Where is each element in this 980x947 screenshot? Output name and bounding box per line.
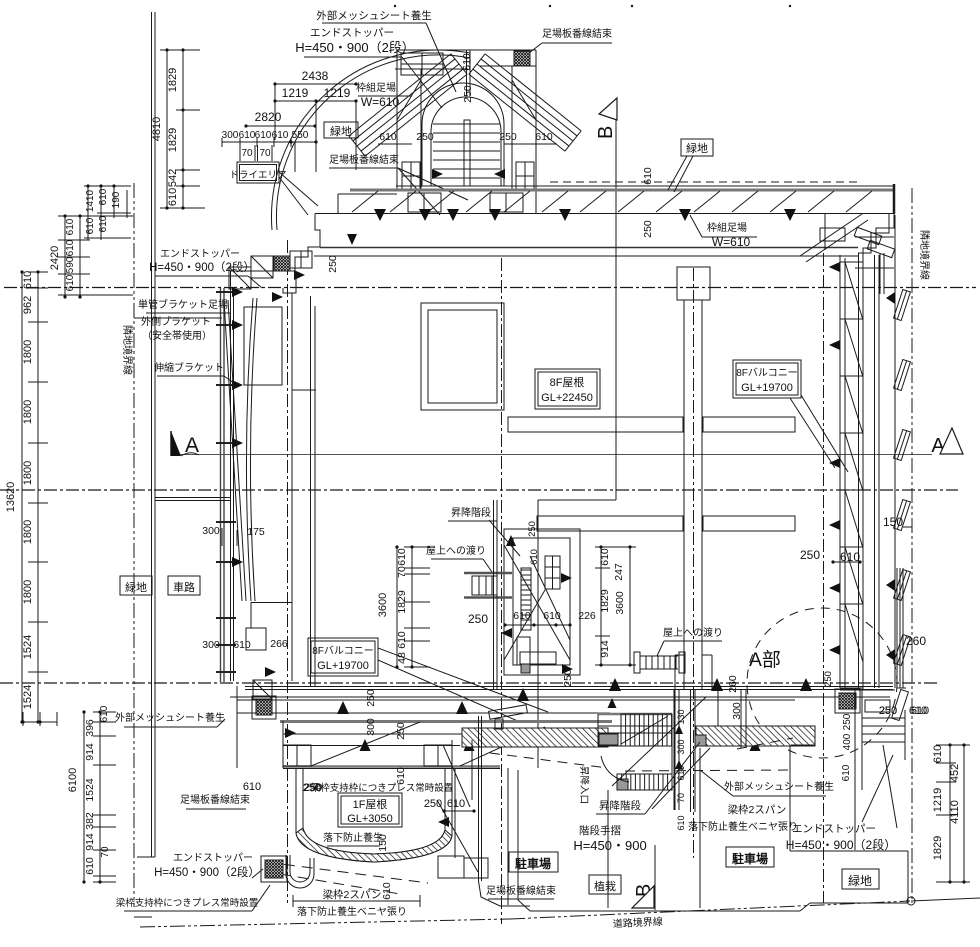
hatch band bottom left [462, 728, 608, 747]
1F roof outline [296, 768, 452, 862]
svg-text:914: 914 [84, 743, 96, 761]
svg-text:緑地: 緑地 [330, 124, 352, 138]
svg-text:396: 396 [84, 719, 96, 737]
label beam 2 span right [688, 803, 798, 833]
label plank tie bottom center [486, 884, 556, 899]
svg-text:610: 610 [167, 188, 179, 206]
svg-text:300: 300 [202, 525, 220, 537]
stair rotated dims [676, 709, 686, 830]
svg-text:屋上への渡り: 屋上への渡り [663, 626, 723, 639]
svg-text:452: 452 [949, 764, 961, 782]
building parapet north [314, 248, 858, 273]
svg-text:昇降入口: 昇降入口 [578, 766, 590, 804]
tower rotated dims [461, 53, 474, 103]
svg-text:250: 250 [842, 713, 853, 730]
svg-text:駐車場: 駐車場 [732, 851, 768, 866]
tower center mullion [467, 50, 471, 96]
scaffold wall verticals near column base [718, 690, 746, 748]
dimension cluster 1410 [84, 184, 131, 240]
SW crosshatch square 2 [261, 856, 287, 882]
road boundary [134, 897, 980, 927]
center column [675, 267, 712, 690]
svg-text:610: 610 [243, 781, 261, 793]
section mark B top [595, 98, 617, 139]
east facade rail lines [823, 527, 912, 688]
svg-text:落下防止養生: 落下防止養生 [323, 831, 383, 844]
SE scaffold steps [840, 689, 908, 850]
west inner walls [155, 293, 316, 687]
svg-text:緑地: 緑地 [848, 873, 872, 888]
svg-text:610: 610 [84, 857, 96, 875]
svg-text:250: 250 [562, 669, 574, 687]
svg-text:914: 914 [599, 640, 611, 658]
svg-text:70: 70 [676, 793, 686, 803]
svg-text:GL+19700: GL+19700 [317, 660, 369, 672]
NE corner steps [800, 214, 895, 690]
svg-text:6100: 6100 [67, 768, 79, 792]
svg-text:1829: 1829 [167, 68, 179, 92]
dimension 2438 [273, 69, 357, 86]
SE crosshatch square [835, 689, 860, 713]
svg-text:266: 266 [270, 638, 288, 650]
svg-text:2420: 2420 [49, 246, 61, 270]
svg-text:1219: 1219 [324, 86, 351, 100]
label scaffold plank tie top [529, 27, 612, 53]
dim beam 2 span left [293, 882, 420, 918]
1F roof labels [304, 782, 465, 852]
svg-text:8F屋根: 8F屋根 [550, 375, 585, 389]
dimension 1219 1219 [273, 84, 357, 170]
svg-text:3600: 3600 [614, 591, 626, 615]
svg-text:1524: 1524 [22, 685, 34, 709]
svg-text:610: 610 [65, 239, 76, 256]
hatch band bottom right [695, 726, 815, 746]
dimension chain left main [5, 270, 48, 723]
svg-text:1829: 1829 [396, 590, 408, 614]
svg-text:W=610: W=610 [361, 95, 400, 109]
svg-text:エンドストッパー: エンドストッパー [310, 27, 394, 39]
dashed mesh lines [490, 600, 880, 771]
svg-text:緑地: 緑地 [125, 580, 147, 594]
svg-text:8Fバルコニー: 8Fバルコニー [736, 367, 797, 379]
svg-text:542: 542 [167, 169, 179, 187]
west curved facade [224, 298, 257, 601]
tower wing right [469, 54, 581, 151]
top scaffold band [315, 182, 894, 214]
svg-text:8Fバルコニー: 8Fバルコニー [312, 645, 373, 657]
west mid dims [202, 525, 288, 651]
svg-text:（安全帯使用）: （安全帯使用） [142, 329, 212, 342]
tower stair treads [433, 120, 500, 186]
label frame scaffold W610 right [690, 215, 757, 249]
svg-text:1800: 1800 [22, 580, 34, 604]
garden arc [271, 50, 470, 230]
svg-text:610: 610 [65, 218, 76, 235]
roof beam bar 2 [504, 516, 795, 531]
stair side rails [608, 690, 696, 812]
bottom band rotated dims [243, 669, 743, 794]
svg-text:GL+3050: GL+3050 [347, 813, 393, 825]
plot boundary lines [508, 745, 908, 911]
label end stopper SW [154, 852, 263, 879]
external stair lower flight [617, 746, 672, 790]
svg-text:13620: 13620 [5, 482, 17, 513]
label planting [589, 875, 621, 894]
label plank tie mid [329, 153, 468, 215]
svg-text:260: 260 [727, 675, 739, 693]
svg-text:外部メッシュシート養生: 外部メッシュシート養生 [724, 780, 834, 793]
svg-text:A部: A部 [749, 649, 781, 671]
tower arch [422, 83, 504, 186]
svg-text:48: 48 [396, 652, 408, 664]
svg-text:590: 590 [65, 256, 76, 273]
svg-text:610: 610 [642, 167, 654, 185]
svg-text:植栽: 植栽 [594, 879, 616, 893]
svg-text:250: 250 [365, 689, 377, 707]
section mark B bottom [632, 884, 655, 908]
NW corner boxes [229, 234, 357, 302]
label A-bu [749, 649, 781, 671]
section line A-A [171, 454, 932, 456]
svg-text:足場板番線結束: 足場板番線結束 [542, 27, 612, 40]
svg-text:300: 300 [676, 739, 686, 754]
svg-text:150: 150 [883, 515, 903, 529]
svg-text:610: 610 [85, 217, 96, 234]
SW corner boxes [246, 602, 296, 738]
label mesh sheet top [316, 9, 456, 92]
label press SW [116, 885, 270, 911]
svg-text:梁枠2スパン: 梁枠2スパン [728, 803, 787, 816]
label 8F balcony right [733, 360, 848, 472]
west labels [149, 248, 262, 288]
label 8F roof [535, 369, 600, 409]
section mark A left [171, 431, 199, 457]
label ryokuchi top right [668, 139, 713, 192]
svg-text:70: 70 [259, 148, 271, 159]
center dim chain 3600 left [377, 545, 430, 668]
svg-text:1410: 1410 [85, 189, 96, 212]
svg-text:昇降階段: 昇降階段 [451, 506, 491, 519]
section line B-B bottom [654, 845, 656, 910]
svg-text:610: 610 [396, 631, 408, 649]
tower wing left [349, 54, 467, 156]
svg-text:エンドストッパー: エンドストッパー [160, 248, 240, 260]
svg-text:250: 250 [395, 722, 407, 740]
svg-text:1524: 1524 [22, 635, 34, 659]
svg-text:610: 610 [98, 188, 109, 205]
label parking right [726, 847, 774, 867]
site boundary label west [121, 325, 134, 375]
svg-text:382: 382 [84, 812, 96, 830]
grid line H1 [4, 287, 976, 289]
svg-text:610: 610 [22, 271, 34, 289]
svg-text:梁枠支持枠につきプレス常時設置: 梁枠支持枠につきプレス常時設置 [116, 897, 259, 909]
svg-text:エンドストッパー: エンドストッパー [792, 823, 876, 835]
svg-text:B: B [595, 126, 617, 139]
svg-text:梁枠支持枠につきプレス常時設置: 梁枠支持枠につきプレス常時設置 [311, 782, 454, 794]
svg-text:1800: 1800 [22, 520, 34, 544]
bottom balcony band [230, 686, 893, 769]
SE dims 250 610 [879, 705, 929, 717]
label roof crossing 2 [657, 626, 723, 656]
svg-text:226: 226 [578, 610, 596, 622]
svg-text:車路: 車路 [173, 580, 195, 594]
svg-text:1829: 1829 [599, 589, 611, 613]
svg-text:70: 70 [241, 148, 253, 159]
stair tower outline [395, 50, 536, 213]
dimension chain 4110 [932, 743, 970, 883]
label stair entrance [578, 766, 590, 804]
label climb stair top [448, 506, 520, 556]
svg-text:150: 150 [377, 834, 389, 852]
svg-text:エンドストッパー: エンドストッパー [173, 852, 253, 864]
svg-text:130: 130 [676, 709, 686, 724]
dimension 300/610/610/610/550 [222, 130, 318, 172]
svg-text:4810: 4810 [151, 117, 163, 141]
svg-text:4110: 4110 [949, 800, 961, 824]
svg-text:610: 610 [461, 53, 473, 71]
svg-text:250: 250 [327, 255, 339, 273]
svg-text:枠組足場: 枠組足場 [356, 81, 396, 94]
site boundary west [133, 183, 135, 907]
svg-text:250: 250 [527, 521, 538, 537]
svg-text:610: 610 [447, 798, 465, 810]
label end stopper top [295, 27, 442, 108]
grid line V5 [823, 253, 825, 903]
svg-text:610: 610 [233, 639, 251, 651]
label plank tie west [180, 793, 250, 809]
east dims [800, 515, 927, 717]
svg-text:70: 70 [396, 566, 408, 578]
svg-text:GL+22450: GL+22450 [541, 392, 593, 404]
svg-text:2438: 2438 [302, 69, 329, 83]
svg-text:962: 962 [22, 296, 34, 314]
label mesh sheet west [115, 711, 225, 727]
svg-text:300: 300 [222, 130, 239, 141]
rotated 610 250 labels right of tower [642, 167, 654, 238]
svg-text:1800: 1800 [22, 461, 34, 485]
label 8F balcony left [308, 638, 548, 722]
svg-text:A: A [185, 434, 199, 457]
svg-text:駐車場: 駐車場 [515, 856, 551, 871]
section mark A right [931, 428, 963, 457]
label frame scaffold W610 left [356, 81, 412, 109]
tower base structures [338, 190, 545, 214]
label dry area [230, 162, 318, 215]
label ryokuchi top [324, 122, 358, 138]
svg-text:400: 400 [842, 733, 853, 750]
svg-text:610: 610 [911, 705, 929, 717]
label end stopper SE [786, 755, 896, 852]
svg-text:247: 247 [613, 563, 625, 581]
svg-text:175: 175 [247, 526, 265, 538]
svg-text:階段手摺: 階段手摺 [579, 824, 621, 837]
site edge double line west [137, 12, 155, 857]
label parking left [509, 852, 558, 872]
svg-text:914: 914 [84, 833, 96, 851]
svg-text:610: 610 [841, 764, 852, 781]
stair path curve [601, 697, 706, 786]
svg-text:70: 70 [100, 846, 111, 858]
1F roof right structures [437, 705, 530, 906]
svg-text:1524: 1524 [84, 778, 96, 802]
top band brace arrows [374, 209, 796, 221]
svg-text:昇降階段: 昇降階段 [599, 799, 641, 812]
svg-text:610: 610 [529, 549, 540, 565]
svg-text:190: 190 [111, 191, 122, 208]
svg-text:落下防止養生ベニヤ張り: 落下防止養生ベニヤ張り [688, 820, 798, 833]
label road left [168, 576, 200, 595]
site boundary east [911, 188, 913, 903]
svg-text:梁枠2スパン: 梁枠2スパン [323, 888, 382, 901]
dimension chain 6100 [67, 705, 116, 883]
svg-text:1219: 1219 [282, 86, 309, 100]
grid line H3 [0, 682, 940, 684]
svg-text:GL+19700: GL+19700 [741, 382, 793, 394]
label road boundary [613, 915, 664, 931]
crosshatch square tower [514, 51, 530, 66]
svg-text:足場板番線結束: 足場板番線結束 [486, 884, 556, 897]
central stair tower [501, 521, 596, 675]
svg-text:隣地境界線: 隣地境界線 [121, 325, 134, 375]
svg-text:610: 610 [65, 274, 76, 291]
label mesh sheet bottom center [700, 770, 834, 796]
svg-text:緑地: 緑地 [686, 141, 708, 155]
label roof crossing 1 [426, 544, 492, 572]
detail circle A [747, 608, 897, 758]
svg-text:H=450・900（2段）: H=450・900（2段） [154, 865, 260, 879]
svg-text:単管ブラケット足場: 単管ブラケット足場 [138, 298, 228, 311]
svg-text:伸縮ブラケット: 伸縮ブラケット [154, 361, 224, 374]
svg-text:610: 610 [98, 215, 109, 232]
label 1F roof [338, 793, 402, 827]
svg-text:落下防止養生ベニヤ張り: 落下防止養生ベニヤ張り [297, 905, 407, 918]
dim 250 below ladder [468, 612, 488, 626]
svg-text:610: 610 [239, 130, 256, 141]
svg-text:610: 610 [599, 548, 611, 566]
svg-text:610: 610 [932, 745, 944, 763]
tower side boxes and arrows [402, 162, 534, 190]
external stair upper flight [598, 714, 672, 746]
dashed fall lines [266, 862, 428, 894]
svg-text:610: 610 [513, 610, 531, 622]
svg-text:外側ブラケット: 外側ブラケット [141, 315, 211, 328]
svg-text:610: 610 [535, 131, 553, 143]
svg-text:枠組足場: 枠組足場 [707, 221, 747, 234]
grid line V2 [287, 240, 289, 903]
grid line H2 [0, 489, 958, 491]
svg-text:H=450・900（2段）: H=450・900（2段） [786, 837, 896, 852]
dimension 2820 [244, 110, 316, 128]
svg-text:H=450・900: H=450・900 [573, 838, 646, 853]
reference dots top [394, 5, 791, 7]
label ryokuchi SE [842, 869, 879, 889]
site boundary label east [918, 230, 931, 280]
svg-text:300: 300 [365, 718, 377, 736]
dimension 610/250 arch [378, 131, 557, 144]
svg-text:250: 250 [800, 548, 820, 562]
svg-text:外部メッシュシート養生: 外部メッシュシート養生 [316, 9, 432, 22]
roof crossing ladder 1 [464, 500, 512, 690]
grid line V3 [501, 258, 503, 924]
svg-text:1829: 1829 [167, 128, 179, 152]
svg-text:610: 610 [396, 548, 408, 566]
roof beam bar 1 [508, 417, 795, 432]
svg-text:1829: 1829 [932, 836, 944, 860]
J hook curve [286, 855, 314, 888]
svg-text:3600: 3600 [377, 593, 389, 617]
svg-text:隣地境界線: 隣地境界線 [918, 230, 931, 280]
NW wall steps [231, 214, 321, 682]
svg-text:2820: 2820 [255, 110, 282, 124]
roof crossing ladder 2 [634, 652, 685, 673]
skylight rectangle [421, 303, 504, 410]
label ryokuchi west [120, 576, 152, 595]
dimension chain 4810 [151, 48, 205, 209]
svg-text:250: 250 [468, 612, 488, 626]
grid line V4 [693, 268, 695, 858]
svg-text:足場板番線結束: 足場板番線結束 [180, 793, 250, 806]
west scaffold verticals [216, 287, 243, 682]
svg-text:H=450・900（2段）: H=450・900（2段） [149, 260, 255, 274]
dimension small 610 [21, 712, 57, 726]
bottom band arrows up [337, 678, 812, 751]
svg-text:1800: 1800 [22, 400, 34, 424]
east scaffold band [829, 255, 879, 688]
svg-text:610: 610 [543, 610, 561, 622]
label climb stair bottom [596, 742, 710, 814]
center dim chain 3600 right [595, 545, 636, 666]
svg-text:1800: 1800 [22, 340, 34, 364]
dimension cluster 2420 [49, 214, 133, 298]
svg-text:610: 610 [99, 705, 110, 722]
svg-text:250: 250 [823, 671, 834, 687]
svg-text:300: 300 [202, 639, 220, 651]
svg-text:外部メッシュシート養生: 外部メッシュシート養生 [115, 711, 225, 724]
svg-text:610: 610 [840, 550, 860, 564]
svg-text:260: 260 [906, 634, 926, 648]
svg-text:屋上への渡り: 屋上への渡り [426, 544, 486, 557]
section line B-B [538, 112, 616, 768]
svg-text:1F屋根: 1F屋根 [353, 797, 388, 811]
svg-text:250: 250 [462, 85, 474, 103]
svg-text:250: 250 [642, 220, 654, 238]
svg-text:1219: 1219 [932, 788, 944, 812]
label stair handrail [573, 824, 646, 853]
svg-text:610: 610 [676, 815, 686, 830]
svg-text:250: 250 [879, 705, 897, 717]
svg-text:250: 250 [499, 131, 517, 143]
svg-text:610: 610 [381, 882, 393, 900]
east facade planks [886, 215, 910, 688]
